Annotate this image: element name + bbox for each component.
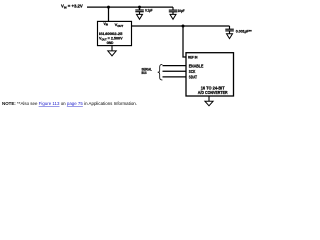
svg-text:REF IN: REF IN bbox=[188, 54, 198, 59]
svg-text:0.001µF**: 0.001µF** bbox=[236, 30, 252, 34]
svg-text:10µF: 10µF bbox=[178, 9, 186, 13]
svg-text:BUS: BUS bbox=[142, 71, 148, 75]
wire SCK bbox=[163, 70, 187, 72]
capacitor C1 0.1µF bbox=[135, 7, 144, 14]
junction dot at VIN drop bbox=[107, 6, 110, 9]
ground below U1 bbox=[108, 46, 116, 56]
svg-text:GND: GND bbox=[107, 41, 114, 45]
node VIN supply label bbox=[61, 4, 84, 10]
svg-text:SCK: SCK bbox=[189, 69, 196, 74]
ground below C1 bbox=[137, 14, 143, 19]
svg-text:VIN: VIN bbox=[104, 22, 109, 27]
serial bus brace bbox=[158, 64, 163, 80]
wire VOUT bbox=[132, 25, 230, 27]
svg-text:0.1µF: 0.1µF bbox=[145, 9, 153, 13]
wire REF IN drop to U2 bbox=[183, 26, 186, 57]
label 16 TO 24-BIT A/D CONVERTER bbox=[198, 85, 228, 95]
svg-text:NOTE: **Also see Figure 113 on: NOTE: **Also see Figure 113 on page 75 i… bbox=[2, 101, 137, 106]
junction dot at REF IN drop bbox=[182, 25, 185, 28]
A/D converter U2 box bbox=[186, 53, 234, 96]
svg-text:A/D CONVERTER: A/D CONVERTER bbox=[198, 90, 228, 95]
wire SDAT bbox=[163, 76, 187, 78]
capacitor C3 0.001µF bbox=[225, 26, 234, 34]
ground below C3 bbox=[227, 34, 233, 39]
svg-text:ENABLE: ENABLE bbox=[189, 63, 204, 68]
junction dot at C1 bbox=[138, 6, 141, 9]
wire VIN drop to U1 bbox=[108, 7, 110, 22]
svg-text:ISL60002-25: ISL60002-25 bbox=[99, 32, 122, 36]
wire ENABLE bbox=[163, 65, 187, 67]
ground below U2 bbox=[205, 96, 213, 106]
wire VIN rail bbox=[87, 6, 173, 8]
capacitor C2 10µF bbox=[169, 7, 178, 14]
ground below C2 bbox=[170, 14, 176, 19]
label SERIAL BUS bbox=[142, 68, 153, 76]
svg-text:SDAT: SDAT bbox=[189, 74, 197, 79]
voltage reference U1 ISL60002-25 box bbox=[98, 21, 132, 45]
